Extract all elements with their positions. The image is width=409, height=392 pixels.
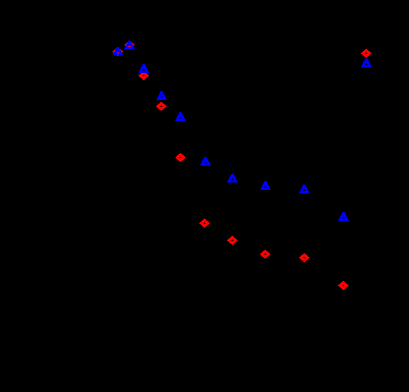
- red diamond point 5: [175, 153, 186, 162]
- red diamond point 2: [124, 40, 135, 49]
- red diamond point 6: [199, 219, 210, 228]
- legend red diamond sample: [361, 49, 372, 58]
- blue triangle point 9: [299, 185, 310, 194]
- blue triangle point 7: [227, 174, 238, 183]
- blue triangle point 10: [338, 212, 349, 221]
- blue triangle point 6: [200, 157, 211, 166]
- blue triangle point 5: [175, 112, 186, 121]
- blue triangle point 4: [156, 91, 167, 100]
- legend blue triangle sample: [361, 59, 372, 68]
- red diamond point 3: [138, 71, 149, 80]
- red diamond point 9: [299, 253, 310, 262]
- blue triangle point 8: [260, 181, 271, 190]
- blue triangle point 3: [138, 64, 149, 73]
- red diamond point 10: [338, 281, 349, 290]
- red diamond point 4: [156, 102, 167, 111]
- red diamond point 1: [112, 47, 123, 56]
- red diamond point 8: [260, 250, 271, 259]
- red diamond point 7: [227, 236, 238, 245]
- blue triangle point 2: [124, 40, 135, 49]
- blue triangle point 1: [112, 47, 123, 56]
